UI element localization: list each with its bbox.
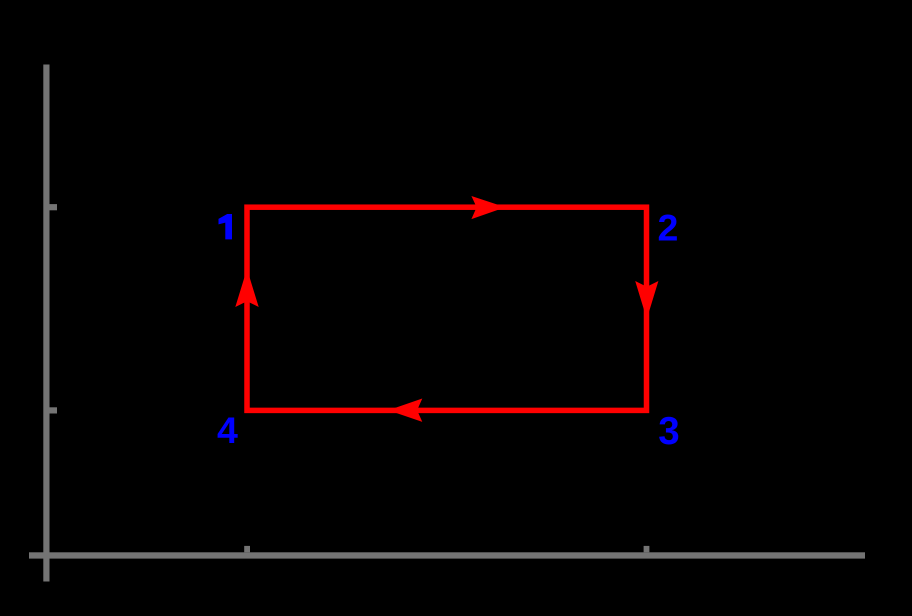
y-axis tick at pressure of state 4 xyxy=(49,407,57,413)
arrowhead process 4-1 (up) xyxy=(235,269,258,307)
svg-text:4: 4 xyxy=(217,409,238,451)
y-axis xyxy=(43,65,49,582)
svg-text:2: 2 xyxy=(658,207,679,249)
arrowhead process 1-2 (right) xyxy=(471,196,505,219)
x-axis tick at volume of state 2 xyxy=(644,546,650,552)
state label 1 xyxy=(219,214,233,239)
arrowhead process 3-4 (left) xyxy=(388,399,422,422)
y-axis tick at pressure of state 1 xyxy=(49,204,57,210)
x-axis tick at volume of state 1 xyxy=(244,546,250,552)
svg-text:3: 3 xyxy=(658,410,679,453)
cycle rectangle 1-2-3-4 xyxy=(247,207,647,410)
arrowhead process 2-3 (down) xyxy=(635,281,658,319)
x-axis xyxy=(29,552,865,558)
